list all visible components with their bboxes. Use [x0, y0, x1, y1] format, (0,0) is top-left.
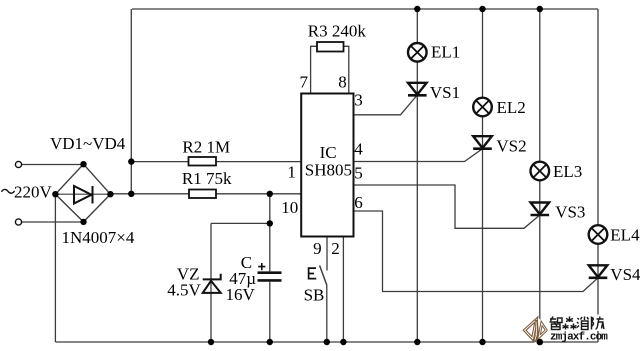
thyristor VS3	[531, 203, 550, 216]
svg-text:EL1: EL1	[431, 42, 460, 61]
switch SB button actuator	[309, 268, 317, 279]
wire lamp branch 1	[416, 9, 418, 342]
thyristor VS1	[408, 83, 427, 96]
node top rail branch3	[537, 6, 543, 12]
wire R2 row: node to IC pin 1	[131, 161, 301, 163]
svg-text:7: 7	[300, 72, 309, 91]
node C top	[267, 191, 273, 197]
wire SB to bottom rail	[326, 285, 328, 342]
wire left vertical from top rail to bridge output	[130, 9, 132, 194]
wire zener branch vertical	[210, 223, 212, 342]
svg-text:VS2: VS2	[496, 137, 526, 156]
svg-text:EL2: EL2	[497, 98, 526, 117]
node rail pin2	[340, 339, 346, 345]
watermark text 智淼消防 (hand-drawn strokes)	[548, 315, 608, 332]
svg-text:4: 4	[354, 139, 363, 158]
防	[592, 317, 594, 330]
bridge internal line	[55, 193, 110, 195]
svg-text:5: 5	[354, 164, 363, 183]
svg-text:R2 1M: R2 1M	[182, 138, 230, 157]
node bridge right	[107, 191, 113, 197]
lamp EL4	[589, 225, 608, 244]
capacitor C plates	[258, 271, 282, 274]
svg-text:3: 3	[354, 90, 363, 109]
wire zener to C node	[211, 222, 270, 224]
wire pin 5 to VS3 gate	[354, 185, 540, 228]
淼	[566, 317, 573, 323]
resistor R3	[317, 42, 344, 52]
svg-text:16V: 16V	[226, 285, 256, 304]
svg-text:220V: 220V	[14, 182, 53, 201]
wire lamp branch 3	[539, 9, 541, 342]
智	[550, 317, 558, 327]
wire pin 2 down to bottom rail	[342, 237, 344, 343]
terminal bottom	[15, 219, 21, 225]
svg-text:SH805: SH805	[305, 161, 352, 180]
svg-text:10: 10	[281, 198, 298, 217]
node rail SB	[324, 339, 330, 345]
wire lamp branch 2	[482, 9, 484, 342]
node rail C	[267, 339, 273, 345]
node bridge bottom	[80, 219, 86, 225]
resistor R1	[189, 190, 216, 199]
wire capacitor branch vertical	[269, 194, 271, 342]
svg-text:VS3: VS3	[555, 202, 585, 221]
wire bridge minus down to bottom rail	[54, 194, 56, 342]
bridge diode symbol	[74, 186, 92, 204]
wire AC top terminal to bridge	[22, 164, 84, 166]
svg-text:EL3: EL3	[553, 162, 582, 181]
watermark logo diamond	[523, 316, 551, 345]
消	[577, 318, 579, 328]
svg-text:R1 75k: R1 75k	[182, 169, 232, 188]
node rail VZ	[208, 339, 214, 345]
svg-text:VS1: VS1	[430, 83, 460, 102]
wire pin 9 down to switch SB	[326, 237, 328, 271]
node bridge left	[52, 191, 58, 197]
wire pin 4 to VS2 gate	[354, 149, 483, 162]
wire pin 7 up to R3	[311, 46, 317, 93]
bridge rectifier VD1~VD4 diamond	[55, 164, 110, 222]
label plus	[258, 263, 265, 270]
svg-text:2: 2	[331, 239, 340, 258]
node top rail branch1	[414, 6, 420, 12]
node rail branch1	[414, 339, 420, 345]
wire pin 3 to VS1 gate	[354, 95, 418, 115]
svg-text:SB: SB	[304, 285, 325, 304]
node rail branch2	[479, 339, 485, 345]
wire top rail	[132, 8, 598, 10]
node R2 tap	[128, 158, 134, 164]
svg-text:R3 240k: R3 240k	[308, 21, 367, 40]
svg-text:8: 8	[338, 72, 347, 91]
terminal top	[15, 161, 21, 167]
wire bottom rail	[55, 341, 598, 343]
thyristor VS4	[589, 265, 608, 278]
svg-text:4.5V: 4.5V	[167, 281, 201, 300]
wire pin 8 up to R3	[344, 46, 349, 93]
svg-text:1: 1	[287, 163, 296, 182]
wire lamp branch 4	[597, 9, 599, 342]
IC U1 SH805 box	[301, 94, 353, 237]
svg-text:1N4007×4: 1N4007×4	[62, 228, 135, 247]
node rail branch3 (over watermark)	[537, 339, 544, 346]
switch SB blade	[320, 266, 327, 286]
svg-text:zmjaxf.com: zmjaxf.com	[550, 331, 608, 343]
wire pin 6 to VS4 gate	[354, 211, 599, 292]
node bridge top	[80, 161, 86, 167]
node bridge plus	[128, 191, 134, 197]
node top rail branch2	[479, 6, 485, 12]
svg-text:IC: IC	[320, 143, 337, 162]
wire R1 row: bridge + to IC pin 10	[110, 193, 301, 195]
zener diode VZ	[203, 274, 221, 293]
lamp EL2	[473, 98, 492, 117]
lamp EL3	[531, 162, 550, 181]
lamp EL1	[408, 43, 427, 62]
svg-text:VD1~VD4: VD1~VD4	[50, 134, 126, 153]
node VZ tee	[267, 220, 273, 226]
svg-text:6: 6	[354, 193, 363, 212]
resistor R2	[189, 157, 217, 166]
svg-text:VS4: VS4	[610, 265, 640, 284]
svg-text:9: 9	[313, 239, 322, 258]
svg-text:EL4: EL4	[610, 225, 640, 244]
thyristor VS2	[473, 136, 492, 149]
wire AC bottom terminal to bridge	[22, 221, 84, 223]
